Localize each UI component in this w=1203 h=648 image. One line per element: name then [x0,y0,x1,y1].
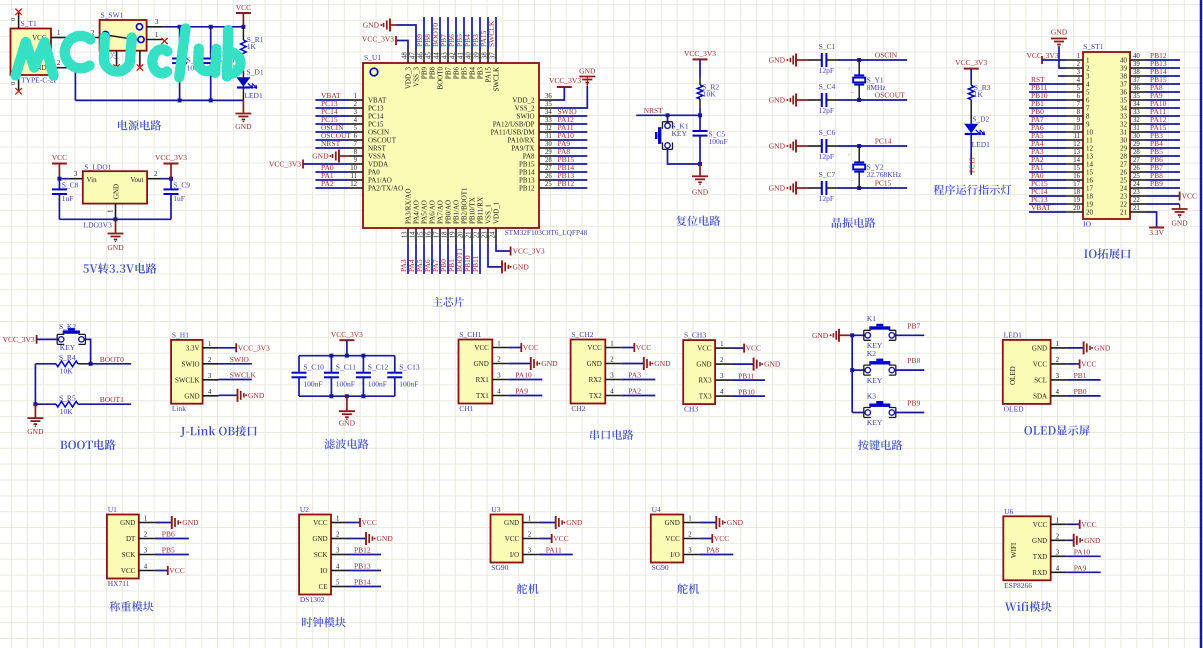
svg-text:VBAT: VBAT [368,96,387,104]
svg-text:LED1: LED1 [1004,330,1023,339]
svg-text:S_CH3: S_CH3 [684,331,706,340]
svg-text:GND: GND [727,518,744,527]
svg-text:4: 4 [497,389,501,396]
svg-text:PC15: PC15 [875,178,892,187]
svg-text:2: 2 [57,60,61,67]
svg-text:6: 6 [1077,93,1081,100]
svg-text:PB12: PB12 [354,546,371,555]
svg-text:34: 34 [1133,101,1140,108]
svg-text:VCC: VCC [746,344,761,353]
svg-text:NRST: NRST [321,139,341,148]
svg-text:S_SW1: S_SW1 [101,11,124,20]
svg-text:20: 20 [458,231,465,238]
svg-text:9: 9 [1086,121,1090,129]
svg-text:2: 2 [688,532,692,539]
svg-text:VCC: VCC [1081,360,1096,369]
svg-text:VCC_3V3: VCC_3V3 [684,49,716,58]
svg-text:19: 19 [450,231,457,238]
svg-text:S_C7: S_C7 [819,170,836,179]
svg-text:37: 37 [1133,77,1140,84]
svg-text:GND: GND [182,518,199,527]
svg-text:S_T1: S_T1 [21,19,38,28]
svg-text:SCK: SCK [122,551,136,559]
svg-text:SWCLK: SWCLK [487,20,496,47]
svg-text:17: 17 [1073,181,1080,188]
svg-text:GND: GND [377,534,394,543]
svg-text:RX1: RX1 [476,376,490,384]
svg-text:GND: GND [566,518,583,527]
svg-text:36: 36 [1133,85,1140,92]
svg-text:KEY: KEY [867,376,883,385]
svg-text:PB9: PB9 [907,399,920,408]
svg-text:PB15: PB15 [519,160,535,168]
svg-text:4: 4 [354,117,358,124]
svg-text:24: 24 [1120,185,1128,193]
svg-text:GND: GND [654,359,671,368]
svg-text:S_ST1: S_ST1 [1083,42,1104,51]
svg-text:PB11/RX: PB11/RX [477,197,485,224]
svg-text:VSSA: VSSA [368,152,386,160]
svg-text:NRST: NRST [644,106,664,115]
svg-text:7: 7 [354,141,358,148]
svg-text:3.3V: 3.3V [186,344,200,352]
svg-text:PA2/TX/AO: PA2/TX/AO [368,184,403,192]
svg-text:22: 22 [1133,197,1140,204]
svg-text:TXD: TXD [1033,553,1047,561]
svg-text:I/O: I/O [670,551,679,559]
svg-text:LED1: LED1 [244,91,263,100]
svg-text:PB5: PB5 [461,67,469,80]
svg-text:GND: GND [248,391,265,400]
svg-text:3: 3 [336,548,340,555]
svg-text:K1: K1 [867,314,876,323]
svg-text:KEY: KEY [60,343,76,352]
svg-text:PB11: PB11 [738,371,755,380]
svg-text:PA11/USB/DM: PA11/USB/DM [491,128,536,136]
svg-text:36: 36 [545,93,552,100]
svg-text:S_C9: S_C9 [173,181,190,190]
svg-text:VDDA: VDDA [368,160,388,168]
svg-text:11: 11 [350,173,357,180]
svg-text:VCC_3V3: VCC_3V3 [955,58,987,67]
svg-text:S_U1: S_U1 [364,53,381,62]
svg-text:4: 4 [720,389,724,396]
svg-text:1: 1 [107,210,114,213]
svg-text:3: 3 [354,109,358,116]
svg-text:VCC_3V3: VCC_3V3 [238,343,270,352]
svg-text:33: 33 [1120,113,1128,121]
svg-text:9: 9 [354,157,358,164]
svg-text:PB9: PB9 [421,67,429,80]
svg-text:30: 30 [1120,137,1128,145]
svg-text:PB14: PB14 [519,168,535,176]
svg-text:PA3: PA3 [628,371,641,380]
svg-text:VBAT: VBAT [1031,203,1051,212]
svg-text:S_C4: S_C4 [819,82,836,91]
svg-text:20: 20 [1086,209,1094,217]
svg-text:GND: GND [1094,344,1111,353]
svg-text:2: 2 [497,357,501,364]
svg-text:PA3/RX/AO: PA3/RX/AO [405,188,413,224]
svg-text:S_C11: S_C11 [336,362,356,371]
svg-text:S_C10: S_C10 [303,362,324,371]
svg-text:PC15: PC15 [368,120,384,128]
svg-text:9: 9 [1077,117,1081,124]
svg-text:S_C6: S_C6 [819,128,836,137]
svg-text:1: 1 [1077,53,1080,60]
svg-text:32: 32 [1133,117,1140,124]
svg-text:SWCLK: SWCLK [230,371,257,380]
svg-text:~: ~ [847,153,854,157]
svg-text:PA9: PA9 [1074,564,1087,573]
svg-text:VCC: VCC [362,518,377,527]
svg-text:PA0: PA0 [368,168,380,176]
svg-text:37: 37 [490,52,497,59]
svg-text:Link: Link [172,404,186,413]
svg-text:PB0/AO: PB0/AO [445,200,453,224]
svg-text:11: 11 [1086,137,1093,145]
svg-text:OSCOUT: OSCOUT [368,136,397,144]
svg-text:1: 1 [497,341,500,348]
svg-text:10K: 10K [703,90,717,99]
svg-text:2: 2 [144,532,148,539]
svg-text:30: 30 [545,141,552,148]
svg-text:5: 5 [1086,89,1090,97]
svg-text:Vout: Vout [130,176,143,184]
svg-text:K3: K3 [867,391,876,400]
svg-text:VCC: VCC [169,566,184,575]
svg-text:35: 35 [545,101,552,108]
svg-text:7: 7 [1077,101,1081,108]
svg-text:SWCLK: SWCLK [175,376,200,384]
svg-text:1: 1 [57,30,60,37]
svg-text:100nF: 100nF [709,137,728,146]
svg-text:GND: GND [474,360,489,368]
svg-text:100nF: 100nF [399,380,418,389]
svg-text:43: 43 [442,52,449,59]
svg-text:100nF: 100nF [303,380,322,389]
svg-text:PC13: PC13 [368,104,384,112]
svg-text:2: 2 [354,101,358,108]
svg-text:19: 19 [1086,201,1094,209]
svg-text:BOOT0: BOOT0 [437,67,445,90]
svg-text:PB7: PB7 [445,67,453,80]
svg-text:5: 5 [354,125,358,132]
svg-text:3: 3 [720,373,724,380]
svg-text:RX2: RX2 [589,376,603,384]
svg-text:2: 2 [336,532,340,539]
svg-text:35: 35 [1133,93,1140,100]
svg-text:17: 17 [1086,185,1094,193]
svg-text:GND: GND [1051,28,1068,37]
svg-text:3: 3 [155,19,159,26]
svg-text:U4: U4 [652,505,661,514]
svg-text:10K: 10K [60,407,74,416]
svg-text:23: 23 [1120,193,1128,201]
svg-text:29: 29 [545,149,552,156]
svg-text:16: 16 [1086,177,1094,185]
svg-text:2: 2 [208,357,212,364]
svg-text:IO: IO [320,567,327,575]
svg-text:26: 26 [545,173,552,180]
svg-text:NRST: NRST [368,144,387,152]
svg-text:TX2: TX2 [589,392,602,400]
svg-text:14: 14 [1073,157,1080,164]
svg-text:VSS_2: VSS_2 [515,104,535,112]
svg-text:1: 1 [354,93,357,100]
svg-text:PA9/TX: PA9/TX [511,144,534,152]
svg-text:PC14: PC14 [875,136,892,145]
svg-text:PA9: PA9 [515,387,528,396]
svg-text:S_C8: S_C8 [62,181,79,190]
svg-text:3: 3 [1056,373,1060,380]
svg-text:GND: GND [769,184,786,193]
svg-text:32: 32 [1120,121,1128,129]
svg-text:23: 23 [1133,189,1140,196]
svg-text:6: 6 [354,133,358,140]
svg-text:GND: GND [692,188,709,197]
svg-text:1: 1 [720,341,723,348]
svg-text:PC13: PC13 [969,157,977,173]
svg-text:CH1: CH1 [459,404,473,413]
svg-text:VCC_3V3: VCC_3V3 [155,153,187,162]
svg-text:HX711: HX711 [108,579,130,588]
svg-text:PA8: PA8 [706,546,719,555]
svg-text:38: 38 [1133,69,1140,76]
svg-text:PB13: PB13 [354,562,371,571]
svg-text:31: 31 [545,133,552,140]
svg-text:29: 29 [1133,141,1140,148]
svg-text:PB1/AO: PB1/AO [453,200,461,224]
svg-text:33: 33 [545,117,552,124]
svg-text:3: 3 [1086,73,1090,81]
svg-text:PB10/TX: PB10/TX [469,197,477,224]
svg-text:4: 4 [610,389,614,396]
svg-text:30: 30 [1133,133,1140,140]
svg-text:VCC: VCC [474,344,489,352]
svg-text:16: 16 [1073,173,1080,180]
svg-text:I/O: I/O [510,551,519,559]
svg-text:SG90: SG90 [652,563,669,572]
svg-text:SCL: SCL [1034,377,1047,385]
svg-text:-: - [852,90,854,97]
svg-text:18: 18 [1073,189,1080,196]
svg-text:GND: GND [363,21,380,30]
svg-text:26: 26 [1120,169,1128,177]
svg-text:RXD: RXD [1032,569,1047,577]
svg-text:40: 40 [1120,57,1128,65]
svg-text:S_LDO1: S_LDO1 [84,163,111,172]
svg-text:GND: GND [579,67,596,76]
svg-text:PA11: PA11 [546,546,562,555]
svg-text:8: 8 [1086,113,1090,121]
svg-text:S_C1: S_C1 [819,42,836,51]
svg-text:VCC: VCC [52,153,67,162]
svg-text:1: 1 [144,516,147,523]
svg-text:K2: K2 [867,349,876,358]
svg-text:GND: GND [769,56,786,65]
svg-text:1: 1 [528,516,531,523]
svg-text:KEY: KEY [867,418,883,427]
svg-text:21: 21 [1133,205,1140,212]
svg-text:Vin: Vin [87,176,98,184]
svg-text:3: 3 [144,548,148,555]
svg-text:5: 5 [336,580,340,587]
svg-text:4: 4 [336,564,340,571]
svg-text:PB9: PB9 [1150,179,1163,188]
svg-text:3.3V: 3.3V [1149,228,1164,237]
svg-text:VCC: VCC [1033,521,1048,529]
svg-text:PB7: PB7 [907,321,920,330]
svg-text:VCC: VCC [553,534,568,543]
svg-text:21: 21 [1120,209,1128,217]
svg-text:GND: GND [764,360,781,369]
svg-text:GND: GND [812,331,829,340]
svg-text:1: 1 [1086,57,1090,65]
svg-text:11: 11 [1073,133,1080,140]
svg-text:42: 42 [450,52,457,59]
svg-text:4: 4 [1056,565,1060,572]
svg-text:PB8: PB8 [907,356,920,365]
svg-text:IO: IO [1083,220,1091,229]
svg-text:VDD_2: VDD_2 [512,96,535,104]
svg-text:PA10: PA10 [1074,548,1091,557]
svg-text:GND: GND [504,519,519,527]
svg-text:28: 28 [1133,149,1140,156]
svg-text:U3: U3 [491,505,500,514]
svg-text:39: 39 [1133,61,1140,68]
svg-text:RX3: RX3 [698,377,712,385]
svg-text:18: 18 [1086,193,1094,201]
svg-text:10: 10 [1086,129,1094,137]
svg-text:38: 38 [482,52,489,59]
svg-text:46: 46 [418,52,425,59]
svg-text:12pF: 12pF [819,106,834,115]
svg-text:14: 14 [1086,161,1094,169]
svg-text:CH2: CH2 [571,404,585,413]
svg-text:SWIO: SWIO [517,112,535,120]
svg-text:PA2: PA2 [628,387,641,396]
svg-text:VDD_3: VDD_3 [405,67,413,90]
svg-text:8: 8 [354,149,358,156]
svg-text:GND: GND [107,243,124,252]
svg-text:39: 39 [1120,65,1128,73]
svg-text:DS1302: DS1302 [300,595,325,604]
svg-text:VCC: VCC [236,3,251,12]
svg-text:PA10/RX: PA10/RX [508,136,535,144]
svg-text:U6: U6 [1004,507,1013,516]
svg-text:20: 20 [1073,205,1080,212]
svg-text:44: 44 [434,52,441,59]
svg-text:LDO3V3: LDO3V3 [84,221,113,230]
svg-text:LED1: LED1 [972,140,991,149]
svg-text:S_K2: S_K2 [59,322,76,331]
svg-text:47: 47 [410,52,417,59]
svg-text:3: 3 [610,373,614,380]
svg-text:PB6: PB6 [453,67,461,80]
svg-text:S_R4: S_R4 [59,353,76,362]
svg-text:25: 25 [1133,173,1140,180]
svg-text:TX3: TX3 [699,393,712,401]
svg-text:PA6/AO: PA6/AO [429,200,437,224]
svg-text:PB3: PB3 [477,67,485,80]
svg-text:27: 27 [545,165,552,172]
svg-text:12pF: 12pF [819,66,834,75]
svg-text:TX1: TX1 [476,392,489,400]
svg-text:PC14: PC14 [368,112,384,120]
svg-text:VCC: VCC [1033,361,1048,369]
svg-text:GND: GND [184,392,199,400]
svg-text:PA15: PA15 [485,67,493,83]
svg-text:27: 27 [1120,161,1128,169]
svg-text:10K: 10K [60,366,74,375]
svg-text:1K: 1K [974,90,984,99]
svg-text:39: 39 [474,52,481,59]
svg-text:2: 2 [720,357,724,364]
svg-text:PA1/AO: PA1/AO [368,176,392,184]
svg-text:25: 25 [545,181,552,188]
svg-text:2: 2 [528,532,532,539]
svg-text:~: ~ [847,67,854,71]
svg-text:3: 3 [208,373,212,380]
svg-text:GND: GND [113,184,121,199]
svg-text:3: 3 [74,171,78,178]
svg-text:GND: GND [312,152,329,161]
svg-text:OSCIN: OSCIN [875,50,898,59]
svg-text:1: 1 [688,516,691,523]
svg-text:17: 17 [434,231,441,238]
svg-text:4: 4 [1086,81,1090,89]
svg-text:3: 3 [1077,69,1081,76]
svg-text:23: 23 [482,231,489,238]
svg-text:100nF: 100nF [368,380,387,389]
svg-text:32.768KHz: 32.768KHz [867,170,902,179]
svg-text:10: 10 [1073,125,1080,132]
svg-text:VCC: VCC [505,535,520,543]
svg-text:VSS_3: VSS_3 [413,67,421,87]
svg-text:12: 12 [350,181,357,188]
svg-text:S_C13: S_C13 [399,362,420,371]
svg-text:VCC: VCC [1182,192,1197,201]
svg-text:34: 34 [1120,105,1128,113]
svg-text:VCC: VCC [313,519,328,527]
svg-text:PA8: PA8 [523,152,535,160]
svg-text:2: 2 [1086,65,1090,73]
svg-text:3: 3 [528,548,532,555]
svg-text:22: 22 [474,231,481,238]
svg-text:PB12: PB12 [519,184,535,192]
svg-text:VCC: VCC [1081,520,1096,529]
svg-text:45: 45 [426,52,433,59]
svg-text:1: 1 [155,32,158,39]
svg-text:2: 2 [610,357,614,364]
svg-text:1: 1 [336,516,339,523]
svg-text:4: 4 [1056,389,1060,396]
svg-text:18: 18 [442,231,449,238]
svg-text:0: 0 [10,18,17,21]
svg-text:3: 3 [688,548,692,555]
svg-text:PA2: PA2 [321,179,334,188]
svg-text:24: 24 [490,231,497,238]
svg-text:PA12/USB/DP: PA12/USB/DP [493,120,535,128]
svg-text:1uF: 1uF [62,194,74,203]
svg-text:S_D2: S_D2 [972,115,989,124]
svg-text:48: 48 [402,52,409,59]
svg-text:DT: DT [126,535,136,543]
svg-text:SCK: SCK [314,551,328,559]
svg-text:SG90: SG90 [491,563,508,572]
svg-text:1: 1 [1056,517,1059,524]
